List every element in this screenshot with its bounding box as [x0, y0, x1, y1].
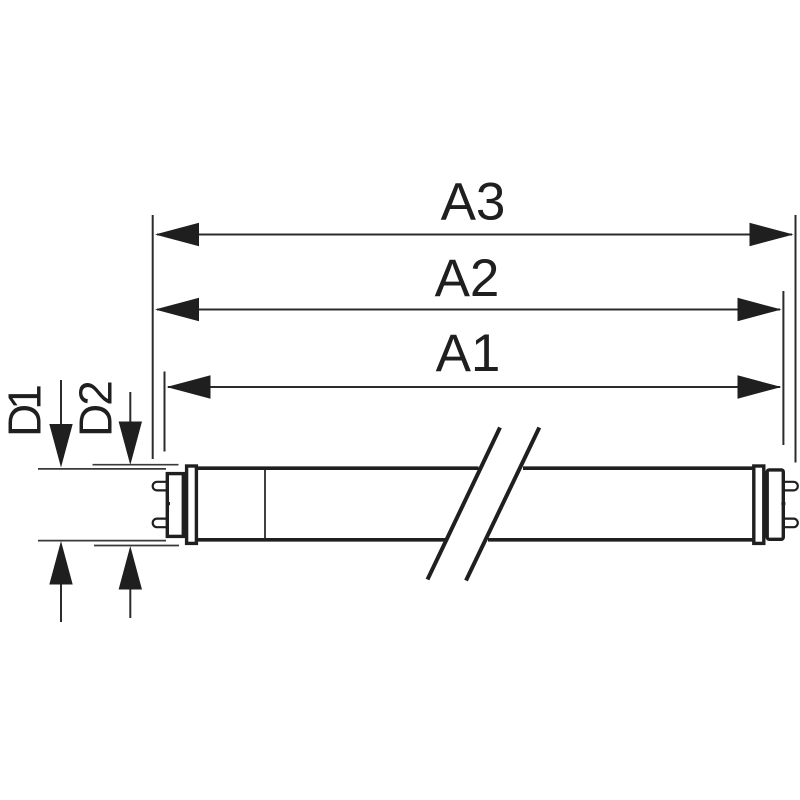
right pin top [785, 482, 798, 491]
tube bottom edge [198, 538, 752, 542]
dimension line D1 bottom [60, 585, 62, 623]
dimension line D2 top [129, 392, 131, 428]
dimension line D2 bottom [129, 590, 131, 619]
dimension line A1 [168, 386, 780, 388]
extension line left pin tip [152, 215, 154, 459]
tick line D2 bottom [94, 545, 179, 547]
extension line left cap face [164, 372, 166, 452]
tick line D2 top [93, 464, 179, 466]
arrowhead D2 top [119, 422, 142, 466]
arrowhead D1 top [49, 424, 72, 468]
extension line right pin tip [795, 215, 797, 463]
left pin top [153, 482, 167, 491]
arrowhead D1 bottom [49, 541, 72, 585]
left end cap [167, 474, 183, 537]
tick line D1 top [38, 468, 166, 470]
arrowhead A1 right [738, 375, 782, 398]
tube top edge [198, 466, 752, 470]
arrowhead A3 left [155, 223, 199, 246]
dimension line D1 top [60, 380, 62, 430]
svg-text:A2: A2 [435, 249, 500, 308]
svg-text:A3: A3 [441, 173, 506, 232]
arrowhead A1 left [167, 375, 211, 398]
left cap stud [166, 502, 170, 505]
svg-text:D1: D1 [0, 386, 51, 437]
extension line right cap face [782, 291, 784, 445]
break diagonal 2 [466, 428, 539, 581]
tick line D1 bottom [38, 540, 166, 542]
tube inner seam line [264, 470, 266, 538]
dimension line A2 [157, 309, 780, 311]
break diagonal 1 [428, 428, 501, 580]
arrowhead A2 right [738, 298, 782, 321]
left cap ring [187, 466, 197, 543]
right end cap [767, 470, 783, 539]
right cap stud [781, 502, 785, 505]
arrowhead D2 bottom [119, 546, 142, 590]
arrowhead A3 right [750, 223, 794, 246]
arrowhead A2 left [155, 298, 199, 321]
dimension line A3 [157, 234, 792, 236]
svg-text:D2: D2 [70, 382, 122, 437]
right pin bottom [785, 519, 798, 528]
right cap ring [754, 466, 764, 543]
svg-text:A1: A1 [436, 324, 501, 383]
left pin bottom [153, 519, 167, 528]
